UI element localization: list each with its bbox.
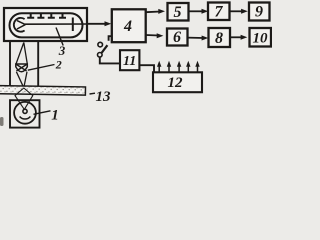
svg-text:6: 6 — [173, 29, 181, 46]
block 6 — [167, 29, 188, 46]
wire PMT output to block 4 — [88, 23, 107, 25]
svg-text:4: 4 — [123, 18, 132, 35]
arrow 4 to 6 — [146, 34, 159, 37]
block 8 — [209, 28, 231, 47]
dynode D3 — [48, 14, 55, 18]
svg-text:9: 9 — [255, 4, 263, 21]
lamp reflector arc — [20, 117, 31, 120]
photomultiplier housing box (detector unit) — [4, 8, 87, 41]
light cone upper right ray — [24, 43, 28, 65]
arrow 8 to 10 — [230, 36, 243, 38]
diaphragm plate 13 (stippled bar) — [0, 86, 85, 96]
wire block 4 to switch — [109, 36, 112, 41]
block 10 — [250, 28, 272, 47]
block 5 — [168, 3, 189, 21]
anode bar — [72, 18, 74, 32]
up arrow 4 on block 12 — [186, 61, 190, 73]
dash before label 13 — [90, 92, 96, 95]
pointer line for label 2 — [28, 65, 55, 71]
photocathode arc — [14, 18, 25, 32]
block 9 — [249, 3, 270, 21]
lamp box — [10, 100, 40, 127]
dynode D1 — [27, 14, 34, 18]
svg-text:2: 2 — [55, 58, 62, 72]
arrow 6 to 8 — [188, 37, 204, 39]
lamp filament dot — [23, 109, 27, 113]
wire switch to block 11 — [100, 57, 120, 63]
svg-text:13: 13 — [96, 89, 112, 105]
svg-text:3: 3 — [58, 43, 66, 58]
svg-text:7: 7 — [215, 3, 224, 20]
svg-text:11: 11 — [123, 54, 136, 69]
light rays through slit — [15, 88, 33, 109]
svg-text:5: 5 — [174, 4, 182, 21]
arrowhead into block 4 — [105, 21, 112, 26]
pointer line for label 3 — [56, 28, 63, 46]
arrow 4 to 5 — [146, 11, 161, 14]
arrow 7 to 9 — [230, 10, 244, 12]
up arrow 1 on block 12 — [157, 61, 161, 73]
light cone lower right ray — [24, 72, 27, 88]
svg-text:10: 10 — [253, 31, 269, 47]
block 7 — [208, 3, 230, 21]
light cone lower left ray — [16, 72, 23, 88]
photomultiplier tube envelope 3 — [10, 13, 83, 37]
up arrow 2 on block 12 — [167, 61, 171, 73]
condenser lens 2 body — [16, 64, 27, 72]
housing wall left — [9, 41, 11, 86]
switch lever — [102, 45, 108, 53]
light cone upper left ray — [16, 43, 24, 65]
svg-text:8: 8 — [215, 30, 223, 47]
arrow 5 to 7 — [189, 10, 204, 12]
switch top contact — [98, 42, 103, 47]
dynode D4 — [59, 14, 66, 18]
photocathode wedge lines — [17, 21, 25, 29]
lamp bulb circle 1 — [14, 102, 36, 124]
anode axis lead — [25, 23, 88, 25]
wire block 11 to block 12 — [139, 65, 154, 72]
block 11 — [120, 50, 139, 70]
housing wall right — [37, 41, 39, 87]
switch bottom contact — [98, 53, 103, 58]
svg-text:1: 1 — [51, 107, 59, 123]
pointer line for label 1 — [34, 111, 51, 115]
svg-text:12: 12 — [168, 75, 184, 91]
lens crossed rays X — [16, 64, 27, 71]
dynode D2 — [37, 14, 44, 18]
up arrow 5 on block 12 — [195, 61, 199, 73]
scan smudge left margin — [0, 117, 4, 126]
block 12 — [153, 72, 202, 92]
up arrow 3 on block 12 — [177, 61, 181, 73]
block 4 — [112, 9, 146, 42]
